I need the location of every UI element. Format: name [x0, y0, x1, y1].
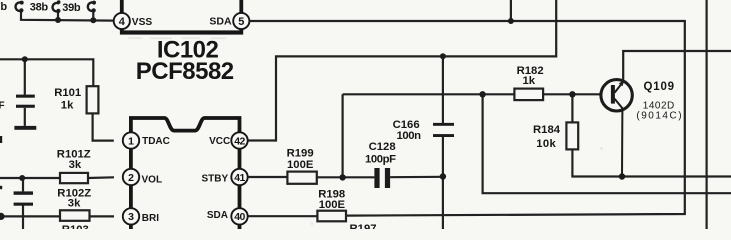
- svg-text:R184: R184: [533, 124, 561, 136]
- svg-text:SDA: SDA: [207, 210, 228, 221]
- svg-text:STBY: STBY: [202, 173, 229, 184]
- svg-text:1k: 1k: [523, 75, 536, 87]
- svg-text:3: 3: [128, 211, 134, 223]
- svg-text:3k: 3k: [68, 198, 81, 210]
- svg-text:38b: 38b: [30, 1, 49, 13]
- svg-text:(9014C): (9014C): [636, 111, 683, 122]
- svg-text:1: 1: [128, 135, 134, 147]
- svg-text:40: 40: [234, 211, 245, 223]
- svg-text:3k: 3k: [69, 159, 82, 171]
- svg-text:42: 42: [234, 135, 245, 147]
- svg-text:R197: R197: [350, 223, 377, 229]
- svg-text:TDAC: TDAC: [142, 136, 170, 147]
- svg-text:BRI: BRI: [142, 213, 159, 224]
- svg-text:100E: 100E: [287, 159, 314, 171]
- svg-text:C128: C128: [369, 141, 396, 153]
- svg-text:100n: 100n: [397, 130, 422, 142]
- svg-text:100E: 100E: [319, 199, 346, 211]
- svg-text:100pF: 100pF: [365, 153, 396, 165]
- svg-text:SDA: SDA: [209, 16, 232, 28]
- svg-text:10k: 10k: [536, 138, 556, 150]
- svg-text:VOL: VOL: [142, 175, 163, 186]
- svg-text:39b: 39b: [62, 2, 81, 14]
- svg-text:41: 41: [234, 172, 245, 184]
- svg-text:1k: 1k: [61, 99, 74, 111]
- svg-text:R199: R199: [287, 147, 314, 159]
- svg-text:PCF8582: PCF8582: [136, 58, 234, 85]
- svg-text:Q109: Q109: [644, 81, 675, 93]
- svg-text:R103: R103: [62, 224, 89, 229]
- svg-text:7b: 7b: [0, 1, 7, 13]
- svg-text:VCC: VCC: [209, 136, 230, 147]
- svg-text:VSS: VSS: [132, 17, 153, 28]
- svg-text:R101: R101: [54, 87, 81, 99]
- svg-text:5: 5: [238, 16, 244, 28]
- svg-text:2: 2: [128, 172, 134, 184]
- svg-text:F: F: [0, 101, 5, 112]
- svg-text:4: 4: [119, 16, 126, 28]
